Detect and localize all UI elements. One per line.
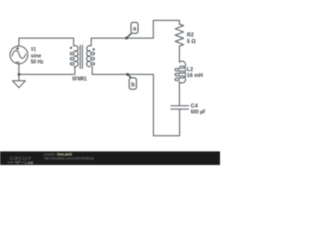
ground — [12, 81, 25, 88]
transformer core — [80, 45, 82, 69]
node b leader line — [128, 74, 132, 78]
wire R2 to L2 — [178, 46, 180, 62]
wire node a net — [91, 20, 179, 38]
node b flag — [129, 78, 136, 89]
wire node b net return — [92, 74, 179, 135]
svg-text:http://circuitlab.com/c/e9hv9r: http://circuitlab.com/c/e9hv9r9dUdp — [44, 157, 94, 161]
node a flag — [131, 22, 138, 33]
secondary winding curls — [91, 52, 95, 54]
transformer XFMR1 secondary winding bumps — [87, 46, 91, 67]
resistor R2 — [175, 24, 183, 46]
wire secondary stubs — [91, 38, 92, 74]
V1 sine wave — [12, 51, 26, 59]
transformer XFMR1 primary winding bumps — [74, 46, 78, 67]
watermark bar — [0, 151, 220, 165]
svg-text:50 Hz: 50 Hz — [31, 60, 44, 66]
primary winding curls — [70, 52, 74, 54]
svg-text:V1: V1 — [31, 47, 36, 53]
wire V1 top to transformer primary — [19, 38, 74, 46]
node a terminal — [125, 37, 128, 40]
svg-text:16 mH: 16 mH — [187, 73, 203, 79]
node b terminal — [126, 73, 129, 76]
node a leader line — [127, 33, 132, 38]
wire L2 to C4 — [178, 82, 180, 105]
V1 minus sign — [16, 61, 19, 63]
svg-text:R2: R2 — [187, 33, 194, 39]
capacitor C4 plates — [171, 106, 189, 109]
transformer polarity dot secondary — [93, 48, 95, 50]
inductor L2 bumps — [179, 61, 185, 83]
wire V1 bottom to ground — [18, 64, 20, 81]
svg-text:XFMR1: XFMR1 — [72, 76, 87, 82]
svg-text:L2: L2 — [187, 67, 193, 73]
watermark logo LAB row — [8, 161, 25, 163]
L2 curls — [175, 68, 179, 71]
svg-text:600 µF: 600 µF — [191, 109, 206, 115]
transformer polarity dot primary — [70, 47, 72, 49]
svg-text:5 Ω: 5 Ω — [187, 39, 196, 45]
svg-text:LAB: LAB — [25, 160, 33, 165]
voltage source V1 — [10, 46, 28, 64]
wire bottom primary return — [19, 67, 75, 75]
V1 plus sign — [16, 47, 18, 49]
junction V1 ground — [18, 73, 21, 76]
svg-text:b: b — [131, 82, 135, 88]
